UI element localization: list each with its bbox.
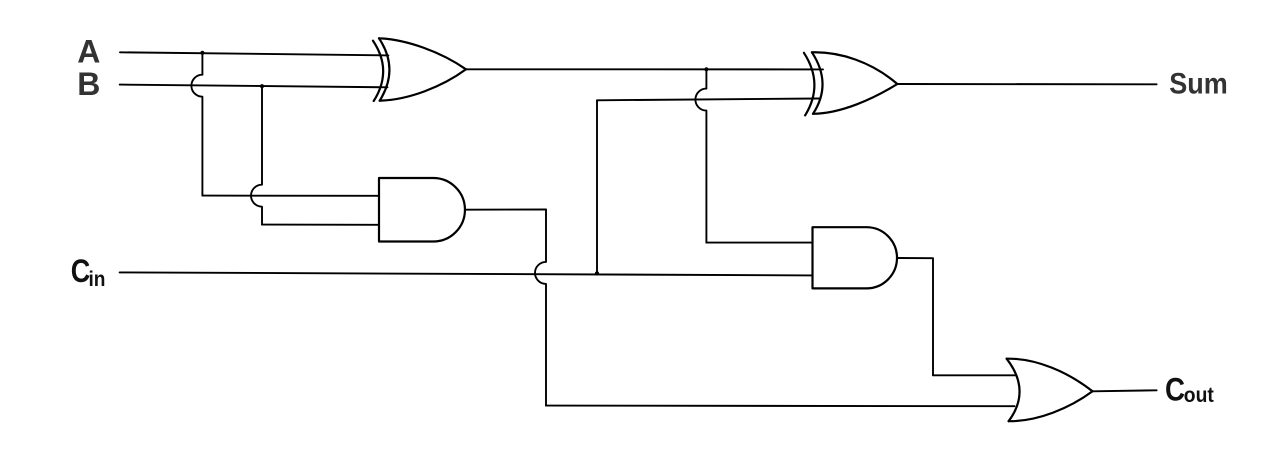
svg-text:in: in <box>89 268 106 291</box>
svg-text:C: C <box>1165 371 1185 407</box>
svg-text:Sum: Sum <box>1169 67 1228 100</box>
svg-text:C: C <box>71 253 91 289</box>
svg-text:out: out <box>1184 383 1214 407</box>
svg-text:A: A <box>77 34 100 70</box>
svg-text:B: B <box>77 66 100 102</box>
